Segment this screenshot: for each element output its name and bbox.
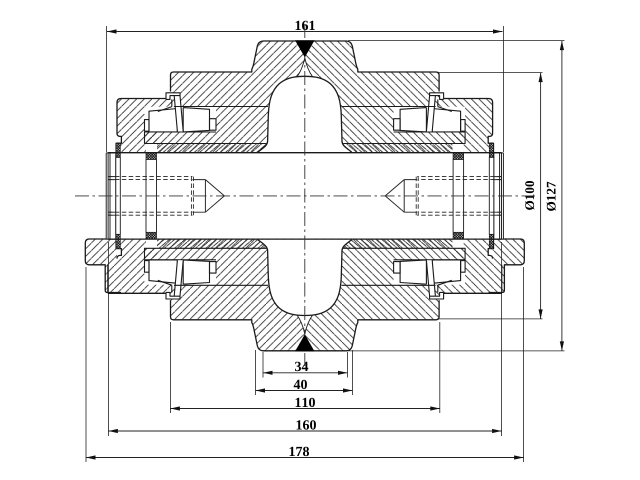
wheel body quadrant BL	[145, 239, 305, 351]
end washer L	[494, 153, 504, 239]
wheel outline BL	[171, 300, 305, 351]
dim 110	[170, 322, 439, 413]
bearing cap BL field	[117, 239, 172, 293]
horizontal centerline	[75, 195, 535, 197]
tapered roller bearing TR	[394, 107, 466, 132]
spacer sleeve BL	[157, 239, 268, 248]
cap outline TR	[444, 99, 494, 153]
weld symbol top	[295, 40, 315, 57]
weld seam boundary BR	[305, 315, 313, 334]
dim 34	[263, 352, 348, 378]
end washer L	[106, 153, 116, 239]
hub bore bell TR	[305, 76, 352, 152]
bearing cap TL field	[117, 99, 172, 153]
bearing cage BL	[174, 260, 183, 296]
spacer sleeve BR	[342, 239, 453, 248]
wheel body quadrant BR	[305, 239, 465, 351]
dim 178	[86, 267, 524, 462]
felt seal L outer top	[116, 143, 121, 157]
hidden bore lines right	[385, 177, 501, 216]
cap outline BR	[444, 239, 502, 293]
bearing cage TL	[174, 96, 183, 132]
hub bore bell BL	[258, 240, 305, 316]
outer ring seat line TR	[342, 106, 436, 108]
cap outline TL	[117, 99, 167, 153]
bearing cage TR	[426, 96, 435, 132]
spacer sleeve TR	[342, 144, 453, 153]
wheel body quadrant TL	[145, 41, 305, 153]
weld seam boundary BL	[297, 315, 305, 334]
weld seam boundary TL	[297, 58, 305, 77]
cap outline BL	[108, 239, 166, 293]
wheel outline TL	[171, 41, 305, 92]
weld seam boundary TR	[305, 58, 313, 77]
bearing cage BR	[426, 260, 435, 296]
felt seal L outer bottom	[489, 234, 494, 248]
dim 160	[108, 242, 501, 436]
felt seal L outer bottom	[116, 234, 121, 248]
bearing cap BR field	[438, 239, 493, 293]
bearing cap TR field	[438, 99, 493, 153]
tapered roller bearing BR	[394, 260, 466, 285]
foot outline BL	[85, 239, 121, 293]
outer ring seat line BR	[342, 284, 436, 286]
foot outline BR	[489, 239, 525, 293]
tapered roller bearing TL	[145, 107, 217, 132]
weld symbol bottom	[295, 334, 315, 351]
hub bore bell BR	[305, 240, 352, 316]
outer ring seat line TL	[174, 106, 268, 108]
felt seal column L outer	[116, 158, 121, 235]
spacer sleeve TL	[157, 144, 268, 153]
wheel body quadrant TR	[305, 41, 465, 153]
dim 40	[256, 350, 353, 395]
left end washer and seals	[106, 143, 156, 248]
wheel outline TR	[305, 41, 439, 92]
mounting foot BL	[85, 239, 117, 293]
felt seal L inner top	[146, 153, 157, 160]
wheel outline BR	[305, 300, 439, 351]
hidden bore lines left	[108, 177, 193, 216]
slinger ring L	[453, 160, 464, 233]
dim dia127	[348, 41, 565, 351]
tapered roller bearing BL	[145, 260, 217, 285]
outer ring seat line BL	[174, 284, 268, 286]
dim dia100	[437, 73, 543, 319]
felt seal L outer top	[489, 143, 494, 157]
hub bore bell TL	[258, 76, 305, 152]
felt seal L inner bottom	[453, 232, 464, 239]
felt seal L inner bottom	[146, 232, 157, 239]
axle shaft outline	[108, 153, 501, 239]
right end washer and seals (mirror)	[453, 143, 503, 248]
felt seal L inner top	[453, 153, 464, 160]
dim 161	[107, 21, 504, 152]
felt seal column L outer	[489, 158, 494, 235]
vertical centerline	[304, 24, 306, 366]
slinger ring L	[146, 160, 157, 233]
mounting foot BR	[493, 239, 525, 293]
